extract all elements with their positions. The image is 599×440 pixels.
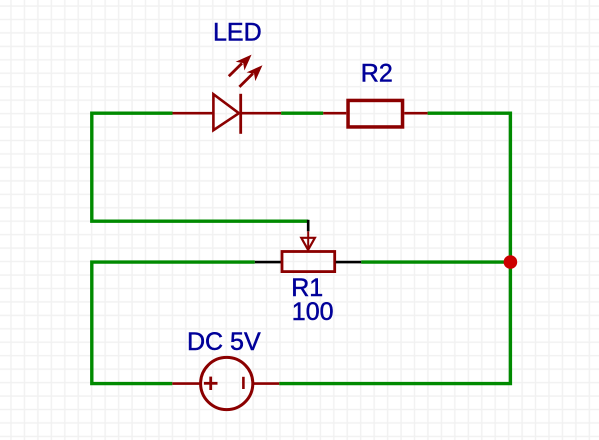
wire top right and right vertical and bottom right [279,113,510,383]
wire top row left green segment [92,113,308,221]
LED light arrow 1 [229,56,251,77]
LED cathode lead [241,112,281,115]
DC source plus sign [204,377,218,390]
R1 wiper stem [307,231,309,248]
svg-text:DC 5V: DC 5V [187,328,261,356]
DC source right lead [253,382,279,385]
wire between LED cathode and R2 [281,111,323,114]
wire R1 row left, left vertical, bottom left [92,262,255,384]
DC source V1 circle [201,357,253,409]
wire R1 row right [361,260,510,263]
svg-text:R2: R2 [361,59,393,87]
svg-text:LED: LED [213,19,262,47]
junction node [504,255,518,269]
svg-text:100: 100 [292,298,334,326]
LED D1 triangle [213,94,239,130]
LED cathode bar [239,94,242,134]
R1 wiper arrow [301,238,315,250]
potentiometer R1 body [282,252,335,272]
DC source minus bar [242,377,245,389]
LED anode lead [173,112,214,115]
resistor R2 right lead [404,112,427,115]
potentiometer R1 right pin [336,261,362,264]
DC source left lead [172,382,200,385]
resistor R2 left lead [323,112,346,115]
resistor R2 body [348,100,403,127]
potentiometer R1 left pin [255,261,281,264]
LED light arrow 2 [239,66,261,87]
R1 wiper pin black segment [307,220,310,232]
